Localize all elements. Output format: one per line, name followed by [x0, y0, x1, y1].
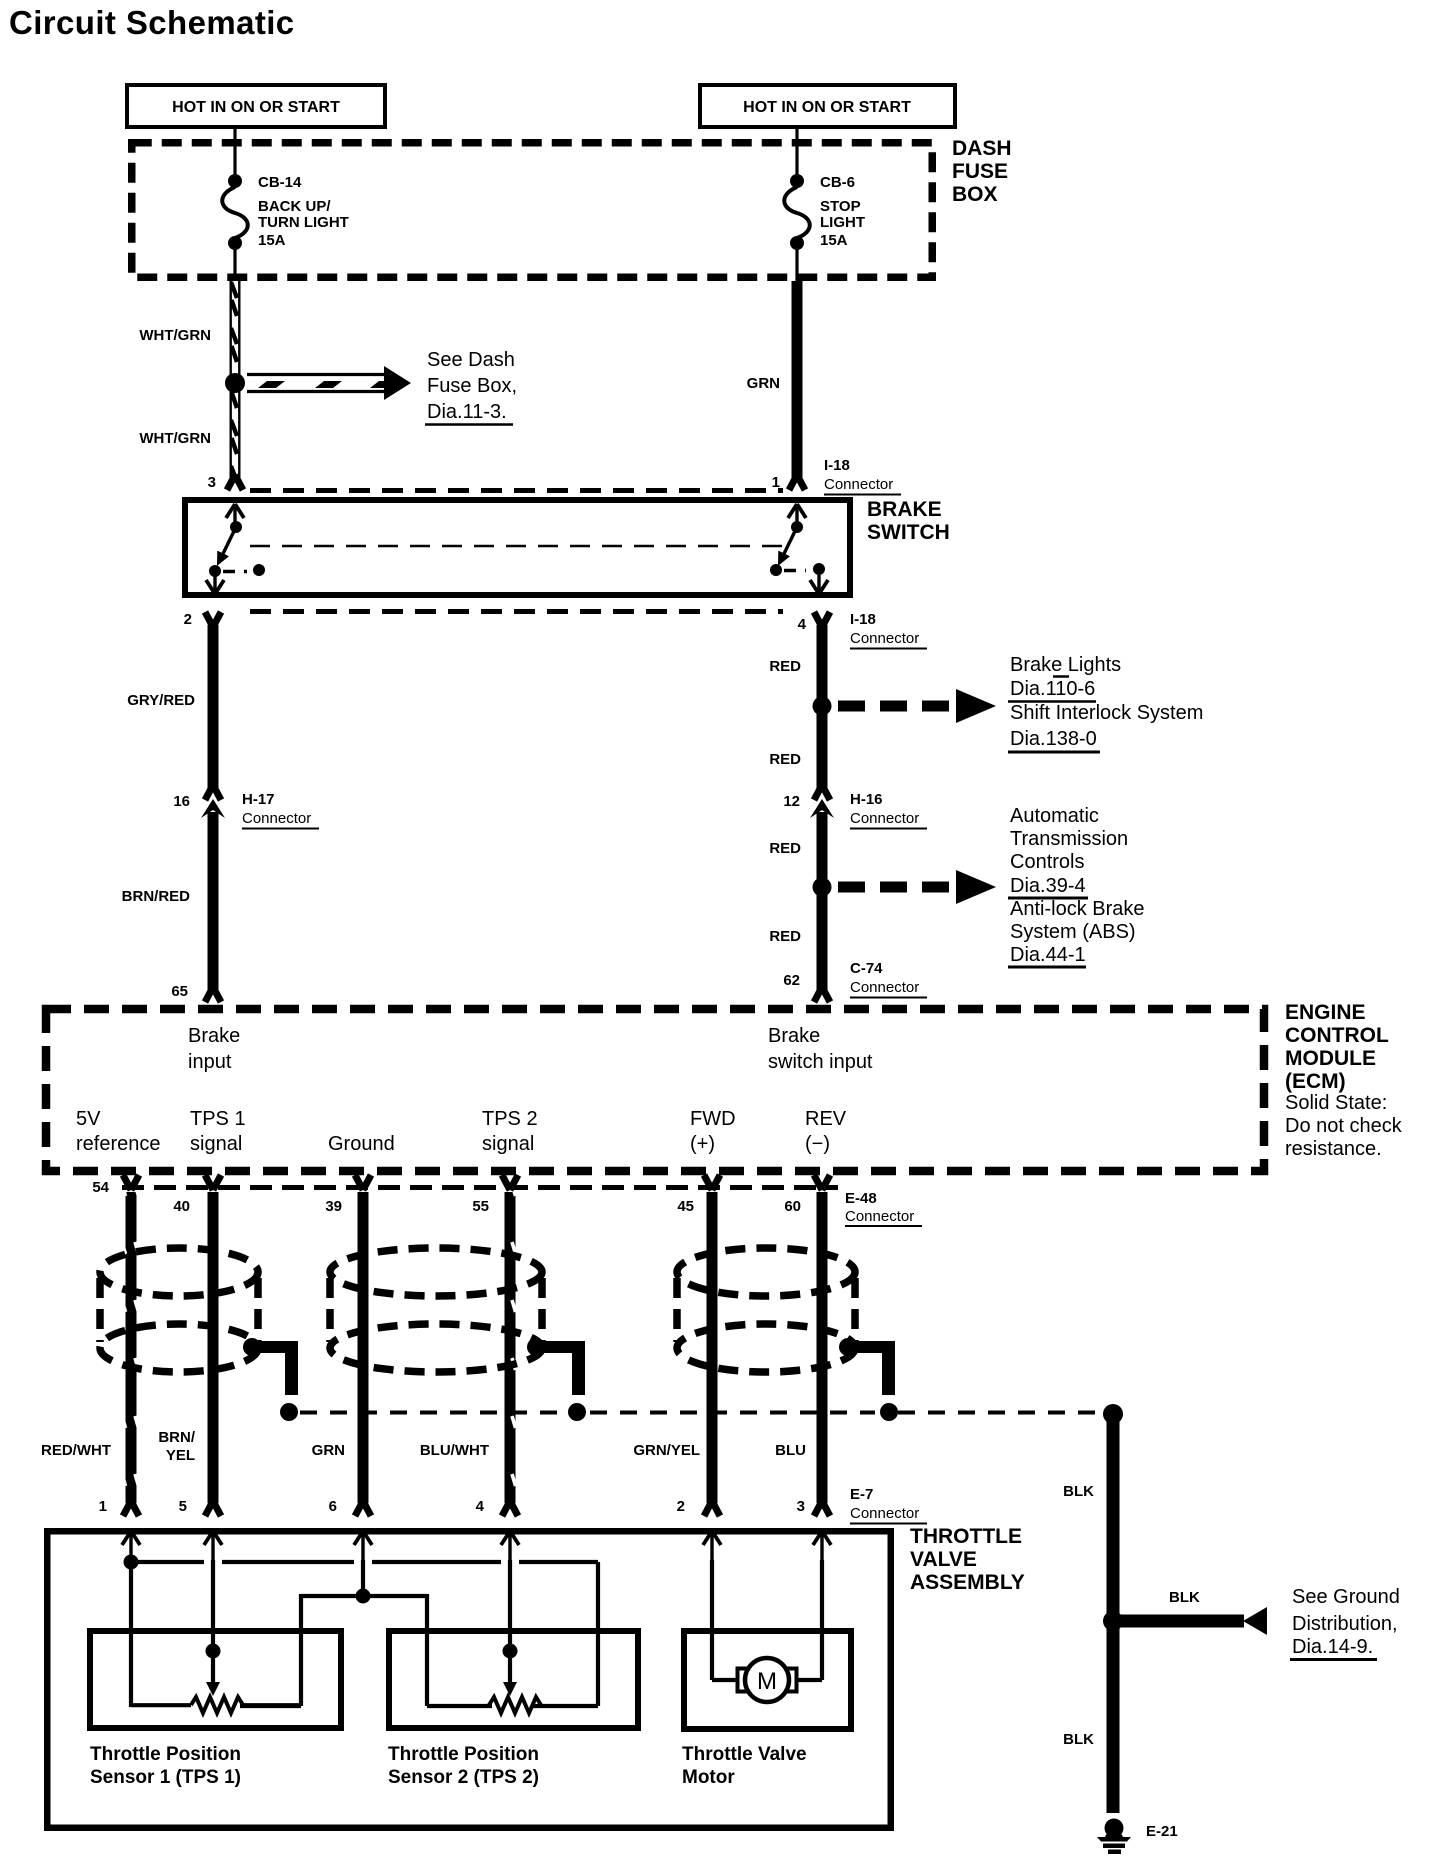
brake switch linkage dashed line [250, 545, 788, 548]
svg-text:ASSEMBLY: ASSEMBLY [910, 1571, 1025, 1594]
svg-text:Connector: Connector [850, 810, 919, 827]
svg-text:BRAKE: BRAKE [867, 498, 942, 521]
wire BLU (60 to E-7 pin 3) [775, 1192, 827, 1503]
svg-text:ENGINE: ENGINE [1285, 1001, 1366, 1024]
fork pin 55 [502, 1175, 518, 1190]
svg-text:BLK: BLK [1063, 1731, 1094, 1748]
connector I-18 (top) [227, 457, 901, 495]
svg-text:THROTTLE: THROTTLE [910, 1525, 1022, 1548]
off-page arrow Brake Lights / Shift Interlock [838, 654, 1203, 752]
wire GRY/RED (pin2 to ECM pin 65) [127, 625, 218, 790]
svg-text:Connector: Connector [850, 979, 919, 996]
connector H-16 [783, 785, 927, 829]
svg-text:HOT IN ON OR START: HOT IN ON OR START [743, 99, 911, 116]
motor M [712, 1560, 822, 1702]
svg-text:GRY/RED: GRY/RED [127, 692, 195, 709]
junction to automatic transmission controls [813, 878, 832, 897]
entry arrow pin 3 [813, 1531, 831, 1560]
junction to brake lights [813, 697, 832, 716]
svg-text:VALVE: VALVE [910, 1548, 977, 1571]
svg-text:62: 62 [783, 972, 800, 989]
svg-text:Throttle Valve: Throttle Valve [682, 1744, 807, 1765]
wire RED (H-16 to ECM pin 62), lower [769, 812, 827, 990]
svg-text:65: 65 [171, 983, 188, 1000]
svg-text:4: 4 [798, 616, 807, 633]
svg-text:WHT/GRN: WHT/GRN [139, 430, 211, 447]
junction on 5V rail [124, 1555, 139, 1570]
svg-text:Sensor 1 (TPS 1): Sensor 1 (TPS 1) [90, 1767, 241, 1788]
shield ground dashed bus [300, 1411, 1101, 1415]
junction on ground rail [356, 1589, 371, 1604]
fork pin 62 into ECM [814, 987, 830, 1002]
svg-text:SWITCH: SWITCH [867, 521, 950, 544]
node FWD (+) [690, 1108, 736, 1155]
svg-text:Fuse Box,: Fuse Box, [427, 375, 517, 397]
connector E-48 [122, 1188, 922, 1227]
svg-text:See Ground: See Ground [1292, 1586, 1400, 1608]
svg-text:RED: RED [769, 928, 801, 945]
5V supply rail wire [131, 1560, 598, 1707]
fork pin 40 [205, 1175, 221, 1190]
shield ring around GRN/YEL and BLU [677, 1248, 855, 1372]
svg-text:15A: 15A [820, 232, 848, 249]
THROTTLE VALVE ASSEMBLY enclosure [47, 1525, 1025, 1828]
svg-text:Distribution,: Distribution, [1292, 1613, 1398, 1635]
svg-text:60: 60 [784, 1198, 801, 1215]
svg-text:TPS 1: TPS 1 [190, 1108, 246, 1130]
wire BLU/WHT (55 to E-7 pin 4) [420, 1192, 516, 1503]
svg-text:40: 40 [173, 1198, 190, 1215]
svg-text:Dia.39-4: Dia.39-4 [1010, 875, 1086, 897]
svg-text:I-18: I-18 [850, 611, 876, 628]
svg-text:BRN/: BRN/ [158, 1429, 195, 1446]
Throttle Position Sensor 1 box [90, 1631, 341, 1788]
power tag HOT IN ON OR START (left) [127, 85, 385, 127]
Throttle Position Sensor 2 box [388, 1631, 638, 1788]
svg-text:Ground: Ground [328, 1133, 395, 1155]
svg-text:Circuit Schematic: Circuit Schematic [9, 4, 295, 41]
BRAKE SWITCH box [185, 498, 950, 595]
svg-text:6: 6 [329, 1498, 337, 1515]
svg-text:input: input [188, 1051, 232, 1073]
svg-text:REV: REV [805, 1108, 847, 1130]
connector H-17 [173, 785, 319, 829]
svg-text:CONTROL: CONTROL [1285, 1024, 1389, 1047]
node 5V reference [76, 1108, 161, 1155]
svg-text:Throttle Position: Throttle Position [388, 1744, 539, 1765]
node Brake input [188, 1025, 240, 1073]
wire CB-14 to fuse box edge [233, 248, 236, 281]
svg-text:Connector: Connector [850, 630, 919, 647]
svg-text:BLU/WHT: BLU/WHT [420, 1442, 489, 1459]
svg-text:3: 3 [208, 474, 216, 491]
wire WHT/GRN (fuse box to brake switch pin 3) [139, 281, 240, 478]
shield ring around RED/WHT and BRN/YEL [100, 1248, 258, 1372]
svg-text:reference: reference [76, 1133, 161, 1155]
svg-text:switch input: switch input [768, 1051, 873, 1073]
svg-text:Brake Lights: Brake Lights [1010, 654, 1121, 676]
svg-text:Connector: Connector [850, 1505, 919, 1522]
svg-text:C-74: C-74 [850, 960, 883, 977]
svg-text:BLK: BLK [1169, 1589, 1200, 1606]
svg-text:Dia.44-1: Dia.44-1 [1010, 944, 1086, 966]
fork pin 54 [123, 1175, 139, 1190]
wire RED/WHT (54 to E-7 pin 1) [41, 1192, 137, 1503]
fork pin 39 [355, 1175, 371, 1190]
svg-text:BOX: BOX [952, 183, 998, 206]
circuit breaker CB-6 STOP LIGHT 15A [784, 174, 865, 250]
svg-text:TPS 2: TPS 2 [482, 1108, 538, 1130]
svg-text:H-17: H-17 [242, 791, 275, 808]
svg-text:1: 1 [99, 1498, 107, 1515]
wire BRN/YEL (40 to E-7 pin 5) [158, 1192, 218, 1503]
wire BRN/RED (H-17 to ECM pin 65) [122, 812, 219, 990]
junction of shield bus with BLK wire [1103, 1404, 1123, 1424]
svg-text:Motor: Motor [682, 1767, 735, 1788]
svg-text:Solid State:: Solid State: [1285, 1092, 1387, 1114]
svg-text:Connector: Connector [845, 1208, 914, 1225]
svg-text:BLU: BLU [775, 1442, 806, 1459]
entry arrow pin 6 [354, 1531, 372, 1560]
resistor TPS 1 [131, 1697, 301, 1713]
svg-text:TURN LIGHT: TURN LIGHT [258, 214, 349, 231]
wire BLK (junction to ground E-21) [1063, 1628, 1119, 1813]
svg-text:Shift Interlock System: Shift Interlock System [1010, 702, 1203, 724]
ground rail wire [240, 1560, 492, 1706]
wire GRN (fuse box to brake switch pin 1) [747, 281, 803, 478]
svg-text:3: 3 [797, 1498, 805, 1515]
svg-text:BRN/RED: BRN/RED [122, 888, 191, 905]
junction on WHT/GRN wire [225, 373, 245, 393]
svg-text:Throttle Position: Throttle Position [90, 1744, 241, 1765]
svg-text:BLK: BLK [1063, 1483, 1094, 1500]
wire GRN (39 to E-7 pin 6) [312, 1192, 369, 1503]
svg-text:RED: RED [769, 658, 801, 675]
node TPS 1 signal [190, 1108, 246, 1155]
entry arrow pin 5 [204, 1531, 222, 1560]
off-page arrow Automatic Transmission / ABS [838, 805, 1145, 967]
svg-text:H-16: H-16 [850, 791, 883, 808]
svg-text:54: 54 [92, 1179, 109, 1196]
node REV (-) [805, 1108, 847, 1155]
svg-text:4: 4 [476, 1498, 485, 1515]
fork pin 65 into ECM [205, 987, 221, 1002]
circuit breaker CB-14 BACK UP/TURN LIGHT 15A [222, 174, 349, 250]
svg-text:GRN: GRN [747, 375, 780, 392]
svg-text:WHT/GRN: WHT/GRN [139, 327, 211, 344]
svg-text:Automatic: Automatic [1010, 805, 1099, 827]
wire RED (pin4 to H-16), upper [769, 625, 827, 790]
svg-text:E-48: E-48 [845, 1190, 877, 1207]
svg-text:(−): (−) [805, 1133, 830, 1155]
wire BLK to ground distribution [1120, 1586, 1400, 1660]
svg-text:2: 2 [184, 611, 192, 628]
svg-text:39: 39 [325, 1198, 342, 1215]
svg-text:See Dash: See Dash [427, 349, 515, 371]
svg-text:2: 2 [677, 1498, 685, 1515]
fork pin 45 [704, 1175, 720, 1190]
wire GRN/YEL (45 to E-7 pin 2) [633, 1192, 717, 1503]
svg-text:HOT IN ON OR START: HOT IN ON OR START [172, 99, 340, 116]
svg-text:(ECM): (ECM) [1285, 1070, 1346, 1093]
svg-text:FWD: FWD [690, 1108, 736, 1130]
node TPS 2 signal [482, 1108, 538, 1155]
svg-text:BACK UP/: BACK UP/ [258, 198, 331, 215]
shield 1 drain wire [243, 1338, 298, 1421]
Throttle Valve Motor box [682, 1631, 851, 1788]
svg-text:Brake: Brake [768, 1025, 820, 1047]
svg-text:MODULE: MODULE [1285, 1047, 1376, 1070]
svg-text:15A: 15A [258, 232, 286, 249]
wire from right HOT tag into fuse box [795, 127, 798, 178]
svg-text:RED/WHT: RED/WHT [41, 1442, 111, 1459]
svg-text:5V: 5V [76, 1108, 101, 1130]
off-page arrow to See Dash Fuse Box [247, 349, 517, 425]
svg-text:FUSE: FUSE [952, 160, 1008, 183]
resistor TPS 2 [489, 1697, 541, 1713]
svg-text:STOP: STOP [820, 198, 861, 215]
svg-text:DASH: DASH [952, 137, 1012, 160]
svg-text:signal: signal [482, 1133, 534, 1155]
shield 3 drain wire [839, 1338, 898, 1421]
svg-text:16: 16 [173, 793, 190, 810]
entry arrow pin 4 [501, 1531, 519, 1560]
svg-text:M: M [757, 1668, 777, 1695]
svg-text:signal: signal [190, 1133, 242, 1155]
svg-text:RED: RED [769, 751, 801, 768]
svg-text:GRN/YEL: GRN/YEL [633, 1442, 700, 1459]
connector C-74 [850, 960, 927, 998]
svg-text:Dia.11-3.: Dia.11-3. [427, 401, 507, 423]
svg-text:Dia.110-6: Dia.110-6 [1010, 678, 1095, 700]
power tag HOT IN ON OR START (right) [700, 85, 955, 127]
brake switch left contact [206, 504, 265, 594]
wire from left HOT tag into fuse box [233, 127, 236, 178]
connector I-18 (bottom) [205, 611, 927, 649]
svg-text:12: 12 [783, 793, 800, 810]
svg-text:(+): (+) [690, 1133, 715, 1155]
svg-text:Dia.138-0: Dia.138-0 [1010, 728, 1097, 750]
svg-text:CB-6: CB-6 [820, 174, 855, 191]
svg-text:GRN: GRN [312, 1442, 345, 1459]
svg-text:Connector: Connector [824, 476, 893, 493]
connector E-7 [123, 1486, 927, 1524]
ground E-21 [1097, 1819, 1178, 1855]
wiper TPS 1 [206, 1560, 221, 1696]
brake switch right contact [770, 504, 828, 594]
svg-text:RED: RED [769, 840, 801, 857]
wire CB-6 to fuse box edge [795, 248, 798, 281]
svg-text:YEL: YEL [166, 1447, 195, 1464]
fork pin 60 [814, 1175, 830, 1190]
svg-text:System (ABS): System (ABS) [1010, 921, 1136, 943]
shield 2 drain wire [527, 1338, 586, 1421]
shield ring around GRN and BLU/WHT [330, 1248, 542, 1372]
wire BLK (shield bus junction down) [1063, 1414, 1119, 1614]
node Brake switch input [768, 1025, 873, 1073]
svg-text:Connector: Connector [242, 810, 311, 827]
svg-text:Transmission: Transmission [1010, 828, 1128, 850]
svg-text:CB-14: CB-14 [258, 174, 302, 191]
svg-text:Brake: Brake [188, 1025, 240, 1047]
entry arrow pin 2 [703, 1531, 721, 1560]
svg-text:E-21: E-21 [1146, 1823, 1178, 1840]
svg-text:55: 55 [472, 1198, 489, 1215]
DASH FUSE BOX enclosure [132, 137, 1012, 277]
svg-text:45: 45 [677, 1198, 694, 1215]
entry arrow pin 1 [122, 1531, 140, 1560]
svg-text:Controls: Controls [1010, 851, 1084, 873]
svg-text:Sensor 2 (TPS 2): Sensor 2 (TPS 2) [388, 1767, 539, 1788]
wiper TPS 2 [503, 1560, 518, 1696]
svg-text:resistance.: resistance. [1285, 1138, 1382, 1160]
svg-text:LIGHT: LIGHT [820, 214, 865, 231]
ENGINE CONTROL MODULE (ECM) enclosure [46, 1001, 1403, 1171]
svg-text:Dia.14-9.: Dia.14-9. [1292, 1636, 1373, 1658]
svg-text:E-7: E-7 [850, 1486, 873, 1503]
junction BLK [1103, 1611, 1123, 1631]
svg-text:Do not check: Do not check [1285, 1115, 1403, 1137]
svg-text:I-18: I-18 [824, 457, 850, 474]
svg-text:5: 5 [179, 1498, 187, 1515]
svg-text:Anti-lock Brake: Anti-lock Brake [1010, 898, 1145, 920]
